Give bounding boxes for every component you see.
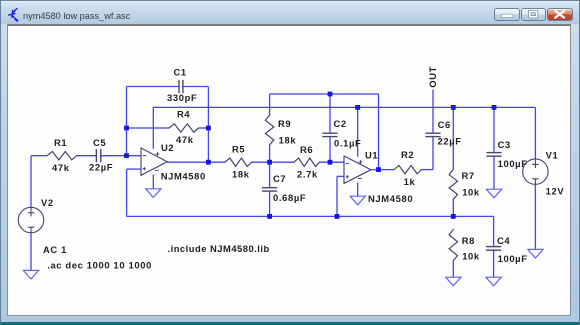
svg-text:C5: C5 <box>93 137 106 148</box>
svg-text:V2: V2 <box>41 197 54 208</box>
svg-text:C4: C4 <box>497 235 510 246</box>
svg-text:0.68µF: 0.68µF <box>273 192 306 203</box>
svg-text:10k: 10k <box>462 251 480 262</box>
svg-text:100µF: 100µF <box>498 158 528 169</box>
svg-text:10k: 10k <box>462 187 480 198</box>
svg-text:R7: R7 <box>462 170 475 181</box>
svg-text:OUT: OUT <box>427 66 438 88</box>
svg-text:U1: U1 <box>365 150 378 161</box>
svg-text:.include NJM4580.lib: .include NJM4580.lib <box>168 243 270 254</box>
svg-text:47k: 47k <box>52 162 70 173</box>
svg-text:47k: 47k <box>176 134 194 145</box>
svg-text:0.1µF: 0.1µF <box>334 138 361 149</box>
svg-text:C2: C2 <box>334 118 347 129</box>
svg-text:R4: R4 <box>177 109 190 120</box>
svg-text:100µF: 100µF <box>498 253 528 264</box>
svg-text:330pF: 330pF <box>167 92 197 103</box>
svg-text:R5: R5 <box>232 144 245 155</box>
svg-text:C1: C1 <box>174 67 187 78</box>
svg-text:18k: 18k <box>279 134 297 145</box>
svg-text:NJM4580: NJM4580 <box>161 171 206 182</box>
svg-text:C6: C6 <box>438 119 451 130</box>
svg-text:1k: 1k <box>404 176 416 187</box>
svg-text:R9: R9 <box>278 118 291 129</box>
svg-text:12V: 12V <box>546 185 565 196</box>
svg-text:R6: R6 <box>300 144 313 155</box>
svg-text:V1: V1 <box>546 150 559 161</box>
svg-text:2.7k: 2.7k <box>297 168 318 179</box>
svg-text:AC 1: AC 1 <box>43 244 67 255</box>
svg-text:NJM4580: NJM4580 <box>368 193 413 204</box>
svg-text:22µF: 22µF <box>438 136 462 147</box>
svg-text:R2: R2 <box>401 149 414 160</box>
svg-text:R1: R1 <box>54 137 67 148</box>
svg-text:R8: R8 <box>462 235 475 246</box>
svg-text:22µF: 22µF <box>89 161 113 172</box>
svg-text:U2: U2 <box>161 142 174 153</box>
svg-text:.ac dec 1000 10 1000: .ac dec 1000 10 1000 <box>47 260 152 271</box>
svg-text:C3: C3 <box>498 139 511 150</box>
svg-text:C7: C7 <box>273 173 286 184</box>
svg-text:18k: 18k <box>232 168 250 179</box>
